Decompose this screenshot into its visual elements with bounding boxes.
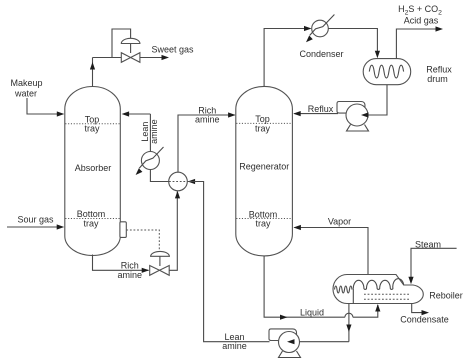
arrow up on overhead riser xyxy=(90,62,95,70)
arrow lean amine into exchanger xyxy=(188,179,196,184)
svg-text:Sweet gas: Sweet gas xyxy=(151,44,194,54)
pipe: acid gas outlet xyxy=(396,29,436,59)
reflux pump volute xyxy=(337,102,365,117)
pipe: sour gas inlet xyxy=(7,226,63,228)
svg-text:amine: amine xyxy=(118,270,143,280)
absorber column vessel xyxy=(65,87,121,256)
svg-text:Regenerator: Regenerator xyxy=(239,162,289,172)
arrow liquid into reboiler xyxy=(375,304,380,312)
svg-text:Steam: Steam xyxy=(415,239,441,249)
svg-text:Vapor: Vapor xyxy=(328,217,351,227)
arrow on liquid line xyxy=(280,315,288,320)
arrow sour gas into absorber xyxy=(57,224,64,229)
arrow makeup water into absorber xyxy=(57,111,65,116)
lean amine pump casing xyxy=(279,332,300,353)
arrow vapor into regenerator xyxy=(293,225,301,230)
absorber bottom tray dotted line xyxy=(65,218,120,220)
pipe: reflux to regenerator xyxy=(294,113,338,115)
absorber top tray dotted line xyxy=(65,123,120,125)
pipe: lean amine from pump to exchanger xyxy=(188,182,270,342)
svg-text:Liquid: Liquid xyxy=(300,307,324,317)
arrow rich amine before valve xyxy=(142,268,150,273)
valve PV stem xyxy=(130,44,132,53)
pipe: steam inlet xyxy=(411,248,457,278)
regenerator bottom tray dotted line xyxy=(236,218,292,220)
cooler circle xyxy=(141,152,159,170)
reboiler left liquid squiggle xyxy=(335,286,353,293)
arrow reflux into regenerator xyxy=(293,111,301,116)
arrow down on drain xyxy=(346,325,351,333)
reflux pump casing xyxy=(346,104,368,126)
liquid line hump over drain xyxy=(345,313,353,317)
arrow into reflux pump xyxy=(361,112,369,117)
arrow acid gas xyxy=(436,26,444,31)
condenser circle xyxy=(312,20,329,37)
svg-text:Acid gas: Acid gas xyxy=(404,16,439,26)
pipe: makeup water inlet xyxy=(27,98,63,114)
valve LV stem xyxy=(159,256,161,266)
svg-text:Reflux: Reflux xyxy=(308,104,334,114)
svg-text:Makeup: Makeup xyxy=(10,78,42,88)
reboiler vessel xyxy=(333,275,423,304)
arrow rich amine into exchanger bottom xyxy=(175,191,180,199)
reboiler boiling scallops xyxy=(353,279,403,290)
pipe: condensate outlet xyxy=(412,304,422,313)
pipe: regenerator overhead to condenser xyxy=(264,29,310,87)
pipe: cooler to exchanger xyxy=(150,170,168,182)
exchanger dashed tube line xyxy=(169,181,187,183)
svg-text:tray: tray xyxy=(83,218,99,228)
lean/rich exchanger circle xyxy=(169,172,188,191)
regenerator top tray dotted line xyxy=(236,122,292,124)
pipe: reboiler drain to pump suction xyxy=(300,341,349,343)
svg-text:Condensate: Condensate xyxy=(400,315,449,325)
arrow condensate xyxy=(422,310,430,315)
arrow rich amine into regenerator xyxy=(228,112,236,117)
pipe: reflux drum to reflux pump xyxy=(368,85,387,115)
arrow lean amine into absorber xyxy=(122,111,130,116)
valve PV actuator diaphragm xyxy=(121,38,140,43)
svg-text:tray: tray xyxy=(255,123,271,133)
arrow sweet gas xyxy=(162,55,170,60)
reflux drum vessel xyxy=(363,59,411,85)
pipe: exchanger to regenerator top xyxy=(178,115,235,172)
pipe: absorber overhead riser xyxy=(92,58,94,87)
valve PV body xyxy=(121,53,130,63)
svg-text:tray: tray xyxy=(255,218,271,228)
pipe: sweet gas outlet xyxy=(140,57,162,59)
level sensor on absorber wall xyxy=(120,222,126,238)
svg-text:amine: amine xyxy=(149,119,159,144)
arrow into condenser xyxy=(304,26,312,31)
pipe: absorber bottoms outlet xyxy=(93,255,149,271)
regenerator column vessel xyxy=(236,86,293,256)
svg-text:Reflux: Reflux xyxy=(426,65,452,75)
pipe: regenerator bottoms liquid line xyxy=(264,256,345,317)
reflux drum wave xyxy=(369,65,403,78)
arrow into lean pump xyxy=(287,339,295,344)
lean amine pump base xyxy=(279,351,301,358)
pipe: valve to rich riser xyxy=(169,192,177,271)
reboiler weir xyxy=(352,288,354,303)
pipe: liquid to reboiler inlet xyxy=(353,305,378,317)
svg-text:amine: amine xyxy=(222,341,247,351)
condenser diagonal xyxy=(310,15,335,36)
valve LV body xyxy=(150,266,160,276)
reflux pump base xyxy=(347,125,369,132)
pipe: lean amine into absorber top xyxy=(123,113,150,115)
level control dashed signal xyxy=(126,230,159,251)
cooler diagonal xyxy=(139,147,163,168)
arrow cooler diagonal xyxy=(136,168,143,175)
svg-text:water: water xyxy=(14,89,37,99)
svg-text:Rich: Rich xyxy=(121,260,139,270)
lean amine pump volute xyxy=(269,329,297,344)
svg-text:Condenser: Condenser xyxy=(299,49,343,59)
valve LV actuator diaphragm xyxy=(151,251,170,256)
svg-text:Reboiler: Reboiler xyxy=(429,291,463,301)
pipe: cooler to absorber vertical xyxy=(149,114,151,152)
arrow into reflux drum xyxy=(375,51,380,59)
reboiler tube bundle dashed xyxy=(364,293,410,295)
svg-text:tray: tray xyxy=(84,124,100,134)
svg-text:Sour gas: Sour gas xyxy=(17,215,54,225)
svg-text:drum: drum xyxy=(427,74,448,84)
svg-text:Absorber: Absorber xyxy=(75,163,112,173)
pressure control signal loop xyxy=(112,29,131,58)
pipe: overhead to valve xyxy=(93,57,122,59)
pipe: vapor from reboiler to regenerator xyxy=(294,228,368,275)
svg-text:amine: amine xyxy=(195,114,220,124)
arrow steam into reboiler xyxy=(408,277,413,285)
pipe: condenser to reflux drum xyxy=(328,29,377,52)
pipe: reboiler lean amine drain xyxy=(348,304,350,342)
arrow condenser diagonal xyxy=(306,36,313,43)
